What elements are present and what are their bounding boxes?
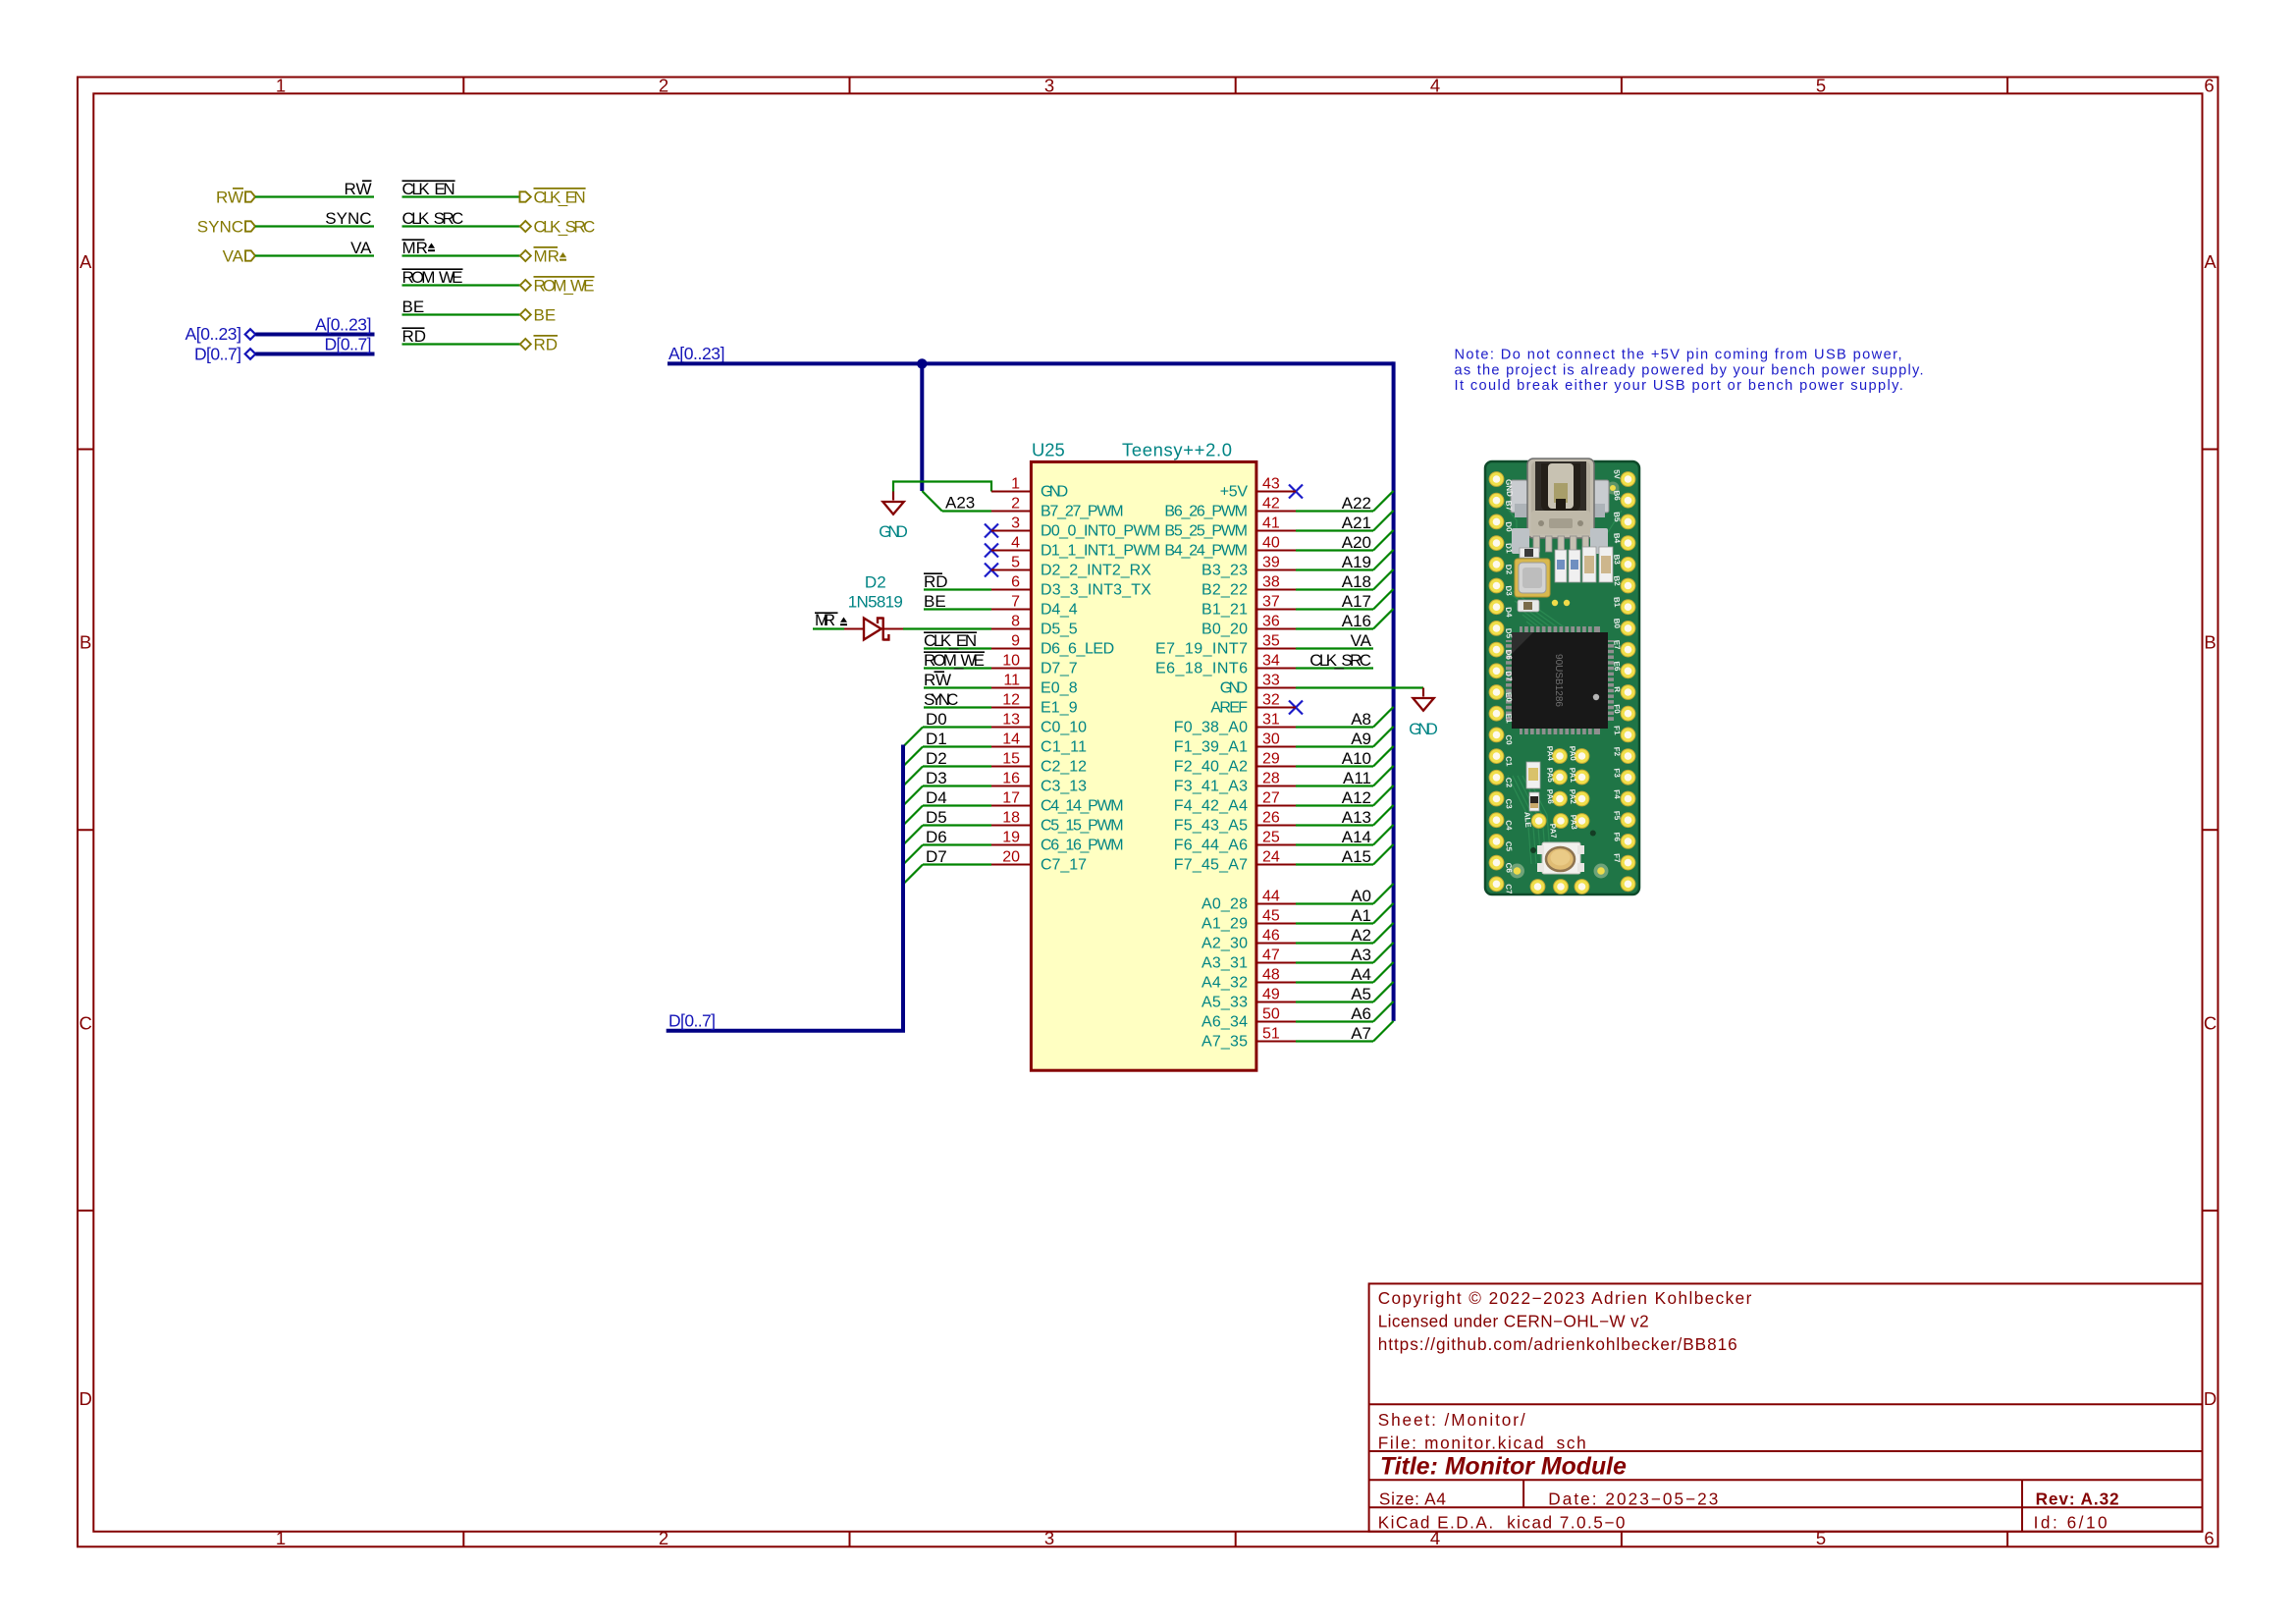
svg-text:D: D bbox=[80, 1388, 92, 1409]
hierarchical label D[0..7] (left stub) bbox=[194, 345, 255, 364]
U25 pin 25 (F6_44_A6) bbox=[1174, 830, 1296, 854]
svg-text:Note: Do not connect the +5V p: Note: Do not connect the +5V pin coming … bbox=[1455, 348, 1902, 363]
wire A0 bbox=[1296, 884, 1394, 904]
svg-text:51: 51 bbox=[1262, 1026, 1280, 1043]
wire ROM_WE bbox=[402, 284, 520, 286]
svg-text:ROM_WE: ROM_WE bbox=[924, 651, 985, 670]
svg-text:GND: GND bbox=[1504, 479, 1515, 498]
svg-text:C1: C1 bbox=[1504, 756, 1514, 768]
U25 pin 15 (C2_12) bbox=[991, 751, 1087, 776]
svg-text:PA0: PA0 bbox=[1568, 745, 1577, 761]
U25 pin 24 (F7_45_A7) bbox=[1174, 849, 1296, 874]
svg-text:E7: E7 bbox=[1612, 639, 1622, 650]
wire A20 bbox=[1296, 530, 1394, 551]
svg-text:B3_23: B3_23 bbox=[1201, 563, 1248, 579]
wire A16 bbox=[1296, 609, 1394, 629]
svg-text:CLK_SRC: CLK_SRC bbox=[1309, 651, 1371, 670]
U25 pin 3 (D0_0_INT0_PWM) bbox=[991, 515, 1160, 540]
net label MR bbox=[402, 239, 436, 257]
svg-text:D2: D2 bbox=[926, 749, 947, 768]
svg-text:46: 46 bbox=[1262, 928, 1280, 945]
wire A6 bbox=[1296, 1001, 1394, 1022]
svg-text:C: C bbox=[2204, 1012, 2216, 1033]
svg-text:F4_42_A4: F4_42_A4 bbox=[1174, 798, 1248, 815]
svg-text:9: 9 bbox=[1011, 633, 1020, 650]
wire A22 bbox=[1296, 491, 1394, 512]
wire MR bbox=[402, 254, 520, 256]
svg-text:28: 28 bbox=[1262, 771, 1280, 787]
hierarchical label CLK_SRC (right) bbox=[520, 218, 596, 237]
hierarchical label ROM_WE (right) bbox=[520, 277, 595, 296]
title block sheet/file bbox=[1378, 1410, 1586, 1453]
svg-text:A1_29: A1_29 bbox=[1201, 916, 1248, 933]
svg-text:PA7: PA7 bbox=[1548, 823, 1558, 839]
svg-text:F3: F3 bbox=[1612, 768, 1622, 779]
hierarchical label VA (input, left) bbox=[223, 247, 255, 266]
svg-text:3: 3 bbox=[1011, 515, 1020, 532]
svg-text:A2_30: A2_30 bbox=[1201, 936, 1248, 952]
net label CLK_EN (pin side) bbox=[924, 631, 977, 650]
net label RD (pin side) bbox=[924, 572, 948, 591]
svg-text:A10: A10 bbox=[1342, 749, 1371, 768]
svg-text:A22: A22 bbox=[1342, 494, 1371, 513]
svg-text:D3: D3 bbox=[1504, 585, 1514, 597]
wire D4 bbox=[903, 806, 991, 826]
svg-text:ROM_WE: ROM_WE bbox=[534, 277, 595, 296]
svg-text:RW: RW bbox=[924, 671, 951, 689]
wire MR (right of diode) bbox=[903, 627, 991, 629]
wire A11 bbox=[1296, 766, 1394, 786]
bus D[0..7] horizontal bbox=[667, 1029, 905, 1033]
U25 pin 9 (D6_6_LED) bbox=[991, 633, 1114, 658]
svg-text:C5: C5 bbox=[1504, 841, 1514, 853]
U25 pin 45 (A1_29) bbox=[1201, 908, 1296, 933]
wire A18 bbox=[1296, 569, 1394, 590]
svg-text:C7_17: C7_17 bbox=[1041, 857, 1087, 874]
wire CLK_SRC bbox=[402, 225, 520, 227]
svg-text:36: 36 bbox=[1262, 614, 1280, 630]
svg-text:E1_9: E1_9 bbox=[1041, 700, 1078, 717]
svg-text:20: 20 bbox=[1002, 849, 1020, 866]
wire VA bbox=[1296, 647, 1373, 649]
svg-text:A2: A2 bbox=[1351, 926, 1371, 945]
svg-text:B4: B4 bbox=[1612, 533, 1622, 545]
wire RD bbox=[402, 343, 520, 345]
U25 pin 43 (+5V) bbox=[1220, 476, 1296, 501]
svg-text:B5_25_PWM: B5_25_PWM bbox=[1164, 523, 1248, 540]
svg-text:A7: A7 bbox=[1351, 1024, 1371, 1043]
U25 pin 17 (C4_14_PWM) bbox=[991, 790, 1124, 815]
svg-text:A4_32: A4_32 bbox=[1201, 975, 1248, 992]
svg-text:F1_39_A1: F1_39_A1 bbox=[1174, 739, 1248, 756]
svg-text:A3_31: A3_31 bbox=[1201, 955, 1248, 972]
svg-text:SYNC: SYNC bbox=[325, 209, 371, 228]
title block kicad version / id bbox=[1378, 1513, 2108, 1533]
U25 pin 8 (D5_5) bbox=[991, 614, 1078, 638]
title block size/date/rev bbox=[1379, 1489, 2119, 1508]
wire D0 bbox=[903, 728, 991, 747]
U25 pin 18 (C5_15_PWM) bbox=[991, 810, 1124, 835]
svg-text:B6: B6 bbox=[1612, 490, 1622, 502]
svg-text:A21: A21 bbox=[1342, 514, 1371, 532]
svg-text:D2: D2 bbox=[865, 573, 886, 592]
svg-text:C6: C6 bbox=[1504, 862, 1514, 874]
U25 pin 5 (D2_2_INT2_RX) bbox=[991, 555, 1151, 579]
svg-text:A9: A9 bbox=[1351, 730, 1371, 748]
svg-text:D1_1_INT1_PWM: D1_1_INT1_PWM bbox=[1041, 543, 1160, 560]
no-connect X pin32 bbox=[1289, 701, 1303, 715]
hierarchical label A[0..23] (left stub) bbox=[186, 324, 256, 344]
svg-text:C4: C4 bbox=[1504, 820, 1514, 832]
svg-text:11: 11 bbox=[1003, 673, 1020, 689]
ground symbol (right) bbox=[1413, 688, 1433, 711]
U25 pin 44 (A0_28) bbox=[1201, 889, 1296, 913]
svg-text:A14: A14 bbox=[1342, 828, 1371, 846]
svg-text:12: 12 bbox=[1002, 692, 1020, 709]
svg-text:D: D bbox=[2204, 1388, 2216, 1409]
svg-text:PA3: PA3 bbox=[1569, 814, 1578, 830]
svg-text:File: monitor.kicad_sch: File: monitor.kicad_sch bbox=[1378, 1434, 1586, 1453]
svg-text:BE: BE bbox=[534, 306, 557, 325]
wire CLK_EN bbox=[402, 195, 520, 197]
ground symbol (left) bbox=[882, 492, 903, 514]
svg-text:3: 3 bbox=[1044, 1528, 1054, 1548]
svg-text:U25: U25 bbox=[1032, 440, 1065, 460]
svg-text:26: 26 bbox=[1262, 810, 1280, 827]
wire A8 bbox=[1296, 707, 1394, 728]
U25 pin 2 (B7_27_PWM) bbox=[991, 496, 1124, 520]
title block copyright text bbox=[1378, 1288, 1752, 1354]
wire A5 bbox=[1296, 982, 1394, 1002]
svg-text:C1_11: C1_11 bbox=[1041, 739, 1087, 756]
svg-text:C6_16_PWM: C6_16_PWM bbox=[1041, 838, 1124, 854]
no-connect X pin4 bbox=[985, 544, 998, 558]
svg-text:D0: D0 bbox=[1504, 521, 1514, 533]
U25 pin 50 (A6_34) bbox=[1201, 1006, 1296, 1031]
svg-text:18: 18 bbox=[1002, 810, 1020, 827]
svg-text:RW: RW bbox=[344, 180, 371, 198]
wire RW (pin side) bbox=[924, 686, 991, 688]
svg-text:E0: E0 bbox=[1504, 692, 1514, 703]
wire pin33 GND bbox=[1296, 686, 1423, 688]
U25 pin 19 (C6_16_PWM) bbox=[991, 830, 1124, 854]
svg-text:ROM_WE: ROM_WE bbox=[402, 268, 463, 287]
svg-text:+5V: +5V bbox=[1220, 484, 1249, 501]
net label ROM_WE (pin side) bbox=[924, 651, 985, 670]
svg-text:5: 5 bbox=[1011, 555, 1020, 571]
hierarchical label SYNC (input, left) bbox=[197, 218, 255, 237]
svg-text:D0: D0 bbox=[926, 710, 947, 729]
svg-text:A[0..23]: A[0..23] bbox=[315, 315, 372, 335]
U25 pin 42 (B6_26_PWM) bbox=[1164, 496, 1296, 520]
svg-text:Sheet: /Monitor/: Sheet: /Monitor/ bbox=[1378, 1410, 1525, 1430]
svg-text:D3: D3 bbox=[926, 769, 947, 787]
wire BE (pin side) bbox=[924, 608, 991, 610]
svg-text:F2: F2 bbox=[1612, 746, 1622, 757]
svg-text:38: 38 bbox=[1262, 574, 1280, 591]
U25 pin 13 (C0_10) bbox=[991, 712, 1087, 736]
wire VA bbox=[255, 254, 374, 256]
svg-text:CLK_SRC: CLK_SRC bbox=[402, 209, 464, 228]
U25 pin 7 (D4_4) bbox=[991, 594, 1078, 619]
U25 pin 46 (A2_30) bbox=[1201, 928, 1296, 952]
svg-text:C7: C7 bbox=[1504, 884, 1514, 895]
svg-text:E6_18_INT6: E6_18_INT6 bbox=[1155, 661, 1248, 677]
svg-text:F3_41_A3: F3_41_A3 bbox=[1174, 779, 1248, 795]
net label CLK_SRC bbox=[402, 209, 464, 228]
svg-text:BE: BE bbox=[402, 298, 425, 316]
svg-text:CLK_SRC: CLK_SRC bbox=[534, 218, 596, 237]
svg-text:D7: D7 bbox=[1504, 671, 1514, 682]
svg-text:F5_43_A5: F5_43_A5 bbox=[1174, 818, 1248, 835]
svg-text:44: 44 bbox=[1262, 889, 1280, 905]
svg-text:Title: Monitor Module: Title: Monitor Module bbox=[1380, 1454, 1627, 1481]
svg-text:8: 8 bbox=[1011, 614, 1020, 630]
svg-text:43: 43 bbox=[1262, 476, 1280, 493]
svg-text:https://github.com/adrienkohlb: https://github.com/adrienkohlbecker/BB81… bbox=[1378, 1334, 1737, 1354]
svg-text:31: 31 bbox=[1262, 712, 1280, 729]
svg-text:B4_24_PWM: B4_24_PWM bbox=[1164, 543, 1248, 560]
U25 pin 20 (C7_17) bbox=[991, 849, 1087, 874]
note text (blue comment) bbox=[1455, 348, 1924, 395]
svg-text:1N5819: 1N5819 bbox=[848, 593, 903, 612]
net label SYNC bbox=[325, 209, 371, 228]
U25 pin 11 (E0_8) bbox=[991, 673, 1078, 697]
svg-text:D[0..7]: D[0..7] bbox=[194, 345, 241, 364]
svg-text:A0_28: A0_28 bbox=[1201, 896, 1248, 913]
svg-text:D[0..7]: D[0..7] bbox=[325, 335, 372, 354]
svg-text:41: 41 bbox=[1262, 515, 1280, 532]
svg-text:D7: D7 bbox=[926, 847, 947, 866]
wire A14 bbox=[1296, 825, 1394, 845]
U25 pin 49 (A5_33) bbox=[1201, 987, 1296, 1011]
svg-text:5: 5 bbox=[1816, 76, 1826, 96]
svg-text:90USB1286: 90USB1286 bbox=[1553, 654, 1564, 707]
wire SYNC bbox=[255, 225, 374, 227]
U25 pin 37 (B1_21) bbox=[1201, 594, 1296, 619]
svg-text:34: 34 bbox=[1262, 653, 1280, 670]
svg-text:F7: F7 bbox=[1612, 853, 1622, 864]
svg-text:Id: 6/10: Id: 6/10 bbox=[2034, 1513, 2108, 1533]
U25 pin 48 (A4_32) bbox=[1201, 967, 1296, 992]
svg-text:F5: F5 bbox=[1612, 811, 1622, 822]
hierarchical label BE (right) bbox=[520, 306, 556, 325]
svg-text:4: 4 bbox=[1430, 76, 1440, 96]
svg-text:A18: A18 bbox=[1342, 572, 1371, 591]
Teensy++2.0 board photo bbox=[1485, 459, 1639, 894]
svg-text:D6_6_LED: D6_6_LED bbox=[1041, 641, 1114, 658]
svg-text:1: 1 bbox=[1011, 476, 1020, 493]
svg-text:16: 16 bbox=[1002, 771, 1020, 787]
svg-text:PA2: PA2 bbox=[1568, 788, 1577, 804]
svg-text:40: 40 bbox=[1262, 535, 1280, 552]
net label RD bbox=[402, 327, 427, 346]
svg-text:A11: A11 bbox=[1343, 769, 1371, 787]
bus A[0..23] vertical right bbox=[1392, 361, 1396, 1021]
svg-text:C4_14_PWM: C4_14_PWM bbox=[1041, 798, 1124, 815]
svg-text:A1: A1 bbox=[1351, 906, 1371, 925]
svg-text:1: 1 bbox=[276, 76, 286, 96]
svg-text:D1: D1 bbox=[926, 730, 947, 748]
svg-text:A5: A5 bbox=[1351, 985, 1371, 1003]
svg-text:Rev: A.32: Rev: A.32 bbox=[2036, 1489, 2119, 1508]
no-connect X pin3 bbox=[985, 524, 998, 538]
svg-text:33: 33 bbox=[1262, 673, 1280, 689]
svg-text:39: 39 bbox=[1262, 555, 1280, 571]
svg-text:B0_20: B0_20 bbox=[1201, 622, 1248, 638]
svg-text:D6: D6 bbox=[926, 828, 947, 846]
svg-text:A13: A13 bbox=[1342, 808, 1371, 827]
svg-text:C5_15_PWM: C5_15_PWM bbox=[1041, 818, 1124, 835]
svg-text:C0: C0 bbox=[1504, 734, 1514, 746]
wire MR (left of diode) bbox=[813, 627, 844, 629]
wire A3 bbox=[1296, 943, 1394, 963]
svg-text:10: 10 bbox=[1002, 653, 1020, 670]
U25 pin 32 (AREF) bbox=[1210, 692, 1296, 717]
svg-text:24: 24 bbox=[1262, 849, 1280, 866]
svg-text:SYNC: SYNC bbox=[924, 690, 958, 709]
wire A10 bbox=[1296, 746, 1394, 767]
svg-text:42: 42 bbox=[1262, 496, 1280, 513]
svg-text:D4: D4 bbox=[926, 788, 947, 807]
svg-text:GND: GND bbox=[1041, 484, 1068, 501]
svg-text:VA: VA bbox=[1351, 631, 1372, 650]
U25 pin 39 (B3_23) bbox=[1201, 555, 1296, 579]
wire ROM_WE (pin side) bbox=[924, 667, 991, 669]
svg-text:25: 25 bbox=[1262, 830, 1280, 846]
svg-text:13: 13 bbox=[1002, 712, 1020, 729]
wire D7 bbox=[903, 865, 991, 885]
frame row letters bbox=[80, 251, 2217, 1409]
svg-text:A16: A16 bbox=[1342, 612, 1371, 630]
svg-text:32: 32 bbox=[1262, 692, 1280, 709]
svg-text:6: 6 bbox=[2204, 76, 2214, 96]
wire CLK_EN (pin side) bbox=[924, 647, 991, 649]
svg-text:F6_44_A6: F6_44_A6 bbox=[1174, 838, 1248, 854]
U25 pin 1 (GND) bbox=[991, 476, 1068, 501]
net label CLK_EN bbox=[402, 180, 455, 198]
svg-text:B6_26_PWM: B6_26_PWM bbox=[1164, 504, 1248, 520]
svg-text:35: 35 bbox=[1262, 633, 1280, 650]
wire D3 bbox=[903, 786, 991, 806]
svg-text:E6: E6 bbox=[1612, 661, 1622, 672]
svg-text:A12: A12 bbox=[1342, 788, 1371, 807]
svg-text:D2: D2 bbox=[1504, 564, 1514, 575]
svg-text:E7_19_INT7: E7_19_INT7 bbox=[1155, 641, 1248, 658]
hierarchical label CLK_EN (right) bbox=[520, 189, 586, 207]
svg-text:D5_5: D5_5 bbox=[1041, 622, 1078, 638]
svg-text:6: 6 bbox=[1011, 574, 1020, 591]
svg-text:27: 27 bbox=[1262, 790, 1280, 807]
U25 pin 10 (D7_7) bbox=[991, 653, 1078, 677]
net label MR bbox=[815, 611, 847, 629]
svg-text:F1: F1 bbox=[1612, 726, 1622, 736]
wire A21 bbox=[1296, 511, 1394, 531]
svg-text:B5: B5 bbox=[1612, 512, 1622, 523]
svg-text:6: 6 bbox=[2204, 1528, 2214, 1548]
frame column numbers bbox=[276, 76, 2215, 1549]
U25 pin 4 (D1_1_INT1_PWM) bbox=[991, 535, 1160, 560]
svg-text:CLK_EN: CLK_EN bbox=[534, 189, 586, 207]
U25 pin 35 (E7_19_INT7) bbox=[1155, 633, 1296, 658]
svg-text:A4: A4 bbox=[1351, 965, 1371, 984]
wire D2 bbox=[903, 767, 991, 786]
svg-text:MR: MR bbox=[534, 247, 560, 266]
svg-text:F0: F0 bbox=[1612, 704, 1622, 715]
svg-text:45: 45 bbox=[1262, 908, 1280, 925]
svg-text:A19: A19 bbox=[1342, 553, 1371, 571]
svg-text:A: A bbox=[2204, 251, 2216, 272]
svg-text:A3: A3 bbox=[1351, 946, 1371, 964]
svg-text:C3_13: C3_13 bbox=[1041, 779, 1087, 795]
svg-text:RD: RD bbox=[402, 327, 427, 346]
svg-text:A6: A6 bbox=[1351, 1004, 1371, 1023]
svg-text:GND: GND bbox=[1220, 680, 1248, 697]
svg-text:B: B bbox=[2204, 632, 2216, 653]
svg-text:B2_22: B2_22 bbox=[1201, 582, 1248, 599]
svg-text:C: C bbox=[80, 1012, 92, 1033]
wire A7 bbox=[1296, 1021, 1394, 1042]
hierarchical label RD (right) bbox=[520, 336, 558, 354]
wire A1 bbox=[1296, 903, 1394, 924]
svg-text:47: 47 bbox=[1262, 947, 1280, 964]
U25 pin 40 (B4_24_PWM) bbox=[1164, 535, 1296, 560]
wire A9 bbox=[1296, 727, 1394, 747]
svg-text:50: 50 bbox=[1262, 1006, 1280, 1023]
svg-text:B1: B1 bbox=[1612, 597, 1622, 609]
diode D2 1N5819 bbox=[844, 618, 903, 641]
svg-text:PA1: PA1 bbox=[1568, 767, 1577, 783]
svg-text:C3: C3 bbox=[1504, 798, 1514, 810]
hierarchical label RW (input, left) bbox=[216, 189, 255, 207]
svg-text:2: 2 bbox=[1011, 496, 1020, 513]
svg-text:Size: A4: Size: A4 bbox=[1379, 1489, 1446, 1508]
svg-text:PA4: PA4 bbox=[1545, 745, 1555, 761]
svg-text:A5_33: A5_33 bbox=[1201, 995, 1248, 1011]
wire D6 bbox=[903, 845, 991, 865]
svg-text:D3_3_INT3_TX: D3_3_INT3_TX bbox=[1041, 582, 1151, 599]
svg-text:14: 14 bbox=[1002, 731, 1020, 748]
U25 pin 47 (A3_31) bbox=[1201, 947, 1296, 972]
wire A4 bbox=[1296, 962, 1394, 983]
svg-text:D2_2_INT2_RX: D2_2_INT2_RX bbox=[1041, 563, 1151, 579]
wire D5 bbox=[903, 826, 991, 845]
svg-text:PA5: PA5 bbox=[1545, 767, 1555, 783]
U25 pin 27 (F4_42_A4) bbox=[1174, 790, 1296, 815]
U25 pin 33 (GND) bbox=[1220, 673, 1296, 697]
svg-text:RW: RW bbox=[216, 189, 243, 207]
svg-text:Licensed under CERN−OHL−W v2: Licensed under CERN−OHL−W v2 bbox=[1378, 1312, 1649, 1331]
no-connect X pin43 bbox=[1289, 485, 1303, 499]
svg-text:GND: GND bbox=[879, 523, 908, 541]
wire A19 bbox=[1296, 550, 1394, 570]
svg-text:RD: RD bbox=[534, 336, 559, 354]
wire BE bbox=[402, 313, 520, 315]
wire A12 bbox=[1296, 785, 1394, 806]
no-connect X pin5 bbox=[985, 564, 998, 577]
wire A2 bbox=[1296, 923, 1394, 944]
svg-text:B: B bbox=[80, 632, 91, 653]
U25 pin 16 (C3_13) bbox=[991, 771, 1087, 795]
title block bbox=[1369, 1283, 2203, 1531]
svg-text:37: 37 bbox=[1262, 594, 1280, 611]
svg-text:D5: D5 bbox=[926, 808, 947, 827]
svg-text:C2: C2 bbox=[1504, 777, 1514, 788]
svg-text:R: R bbox=[1613, 686, 1622, 693]
svg-text:E1: E1 bbox=[1504, 713, 1514, 724]
svg-text:1: 1 bbox=[276, 1528, 286, 1548]
wire A15 bbox=[1296, 844, 1394, 865]
